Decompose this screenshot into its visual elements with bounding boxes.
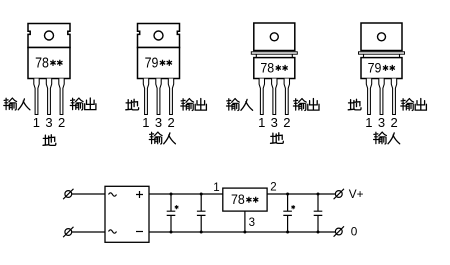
label input 输入: [227, 99, 253, 111]
output terminal V+: [334, 189, 344, 199]
pin lead 3: [284, 79, 289, 115]
label input 输入: [149, 132, 175, 144]
capacitor C1 (input electrolytic): [167, 194, 176, 232]
regulator U3 (78**) tab (isolated package): [254, 23, 295, 51]
wire rectifier + to regulator pin 1 (top rail): [149, 193, 223, 195]
label output 输出: [70, 98, 96, 110]
regulator U4 (79**) tab (isolated package): [361, 23, 402, 51]
input terminal J1 (AC in top): [63, 189, 73, 199]
pin lead 2: [156, 79, 161, 115]
svg-text:1: 1: [142, 115, 149, 130]
junction dot bottom of C3 (output electrolytic): [286, 231, 289, 234]
regulator U1 (78**) tab (TO-220 mounting tab): [28, 24, 70, 48]
pin lead 2: [272, 79, 277, 115]
junction dot top of C3 (output electrolytic): [286, 193, 289, 196]
input terminal J2 (AC in bottom): [63, 227, 73, 237]
svg-text:78: 78: [35, 55, 49, 72]
wire bottom rail (0 V): [149, 231, 335, 233]
svg-text:1: 1: [33, 115, 40, 130]
label output 输出: [181, 99, 207, 111]
pin lead 1: [34, 79, 39, 115]
label output 输出: [401, 99, 427, 111]
label ground 地: [271, 133, 284, 144]
value label 79**: [368, 59, 395, 75]
junction dot bottom of C2 (input ceramic): [200, 231, 203, 234]
label input 输入: [374, 132, 400, 144]
mounting hole of U3 (78**): [270, 33, 278, 41]
neck of U3 (78**): [256, 54, 292, 57]
pin lead 3: [59, 79, 64, 115]
neck of U4 (79**): [364, 54, 400, 57]
label output 输出: [293, 99, 319, 111]
svg-text:1: 1: [258, 115, 265, 130]
bridge rectifier BR1: [105, 186, 149, 242]
capacitor C4 (output ceramic): [314, 194, 323, 232]
label ground 地: [126, 99, 139, 110]
junction dot top of C2 (input ceramic): [200, 193, 203, 196]
svg-text:V+: V+: [349, 187, 364, 201]
mounting hole of U4 (79**): [378, 33, 386, 41]
svg-text:2: 2: [390, 115, 397, 130]
mounting hole of U2 (79**): [154, 31, 163, 40]
wire regulator pin 2 to V+ (top rail right): [267, 193, 335, 195]
regulator U5 (78**) block: [223, 188, 267, 211]
junction dot pin3/ground: [243, 231, 246, 234]
junction dot top of C4 (output ceramic): [317, 193, 320, 196]
regulator U2 (79**) body: [138, 48, 180, 79]
svg-text:2: 2: [270, 181, 276, 193]
mounting hole of U1 (78**): [45, 31, 54, 40]
pin lead 1: [259, 79, 264, 115]
pin lead 2: [379, 79, 384, 115]
regulator U3 (78**) body: [254, 58, 295, 79]
svg-text:79: 79: [145, 55, 159, 72]
svg-text:3: 3: [249, 217, 255, 229]
wire J2 to rectifier: [72, 231, 105, 233]
svg-text:79: 79: [368, 59, 382, 75]
svg-text:1: 1: [213, 182, 219, 194]
value label 78**: [260, 59, 287, 75]
wire regulator pin 3 to ground rail: [244, 211, 246, 232]
junction dot top of C1 (input electrolytic): [170, 193, 173, 196]
capacitor C3 (output electrolytic): [283, 194, 292, 232]
junction dot bottom of C1 (input electrolytic): [170, 231, 173, 234]
label ground 地: [43, 135, 56, 146]
regulator U2 (79**) tab (TO-220 mounting tab): [138, 24, 180, 48]
svg-text:2: 2: [283, 115, 290, 130]
svg-text:3: 3: [45, 115, 52, 130]
value label 78**: [231, 192, 258, 207]
svg-text:2: 2: [167, 115, 174, 130]
capacitor C2 (input ceramic): [197, 194, 206, 232]
regulator U4 (79**) body: [361, 58, 402, 79]
svg-text:2: 2: [58, 115, 65, 130]
svg-text:78: 78: [231, 192, 245, 207]
svg-text:3: 3: [155, 115, 162, 130]
pin lead 3: [168, 79, 173, 115]
pin lead 1: [366, 79, 371, 115]
svg-text:3: 3: [378, 115, 385, 130]
pin lead 3: [391, 79, 396, 115]
label input 输入: [4, 98, 30, 110]
pin lead 1: [143, 79, 148, 115]
output terminal 0: [334, 226, 344, 236]
value label 78**: [35, 55, 62, 72]
svg-text:0: 0: [351, 225, 358, 239]
svg-text:1: 1: [365, 115, 372, 130]
flange of U4 (79**): [359, 52, 405, 54]
label ground 地: [348, 99, 361, 110]
svg-text:78: 78: [260, 59, 274, 75]
wire J1 to rectifier: [72, 193, 105, 195]
value label 79**: [145, 55, 172, 72]
regulator U1 (78**) body: [28, 48, 70, 79]
svg-text:3: 3: [271, 115, 278, 130]
flange of U3 (78**): [251, 52, 297, 54]
pin lead 2: [46, 79, 51, 115]
junction dot bottom of C4 (output ceramic): [317, 231, 320, 234]
